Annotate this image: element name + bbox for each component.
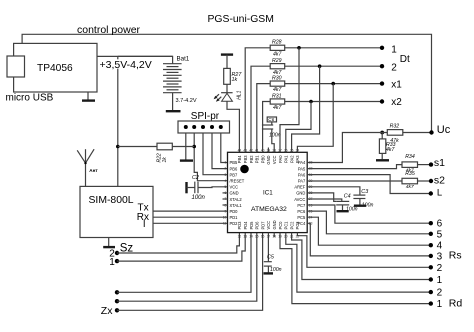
wire PC7 to terminal 6 (307, 205, 431, 223)
ground (C3) (354, 204, 366, 206)
node terminal 6 (429, 221, 433, 225)
svg-text:1: 1 (109, 257, 115, 268)
node Zx bottom (115, 308, 119, 312)
wire R30 left to PB1 pin41 (257, 84, 270, 153)
svg-text:C3: C3 (361, 189, 368, 195)
battery Bat1 (163, 55, 190, 92)
svg-text:XTAL1: XTAL1 (230, 203, 243, 208)
svg-text:PD1: PD1 (230, 215, 239, 220)
svg-text:s1: s1 (434, 157, 445, 169)
wire R33 stubs (381, 133, 383, 139)
wire PC6 to terminal 5 (307, 211, 431, 234)
svg-text:GND: GND (296, 191, 305, 196)
svg-text:HL1: HL1 (237, 90, 243, 99)
svg-text:3.7-4.2V: 3.7-4.2V (176, 98, 197, 104)
node terminal x2 (380, 99, 384, 103)
svg-text:TP4056: TP4056 (37, 63, 73, 74)
svg-text:PB2: PB2 (249, 155, 254, 163)
svg-text:PC7: PC7 (297, 203, 306, 208)
svg-text:4k7: 4k7 (386, 147, 395, 153)
wire SPI pin5 to PB5 (221, 133, 228, 163)
wire control power rail (22, 34, 431, 132)
wire R22 to RESET junction (172, 146, 194, 148)
svg-text:XTAL2: XTAL2 (230, 197, 243, 202)
wire Sz2 to PD3 (117, 233, 239, 253)
svg-text:10: 10 (223, 216, 227, 220)
IC U1 ATMEGA32 body (228, 152, 308, 232)
svg-text:Uc: Uc (437, 124, 451, 136)
svg-text:x1: x1 (391, 79, 402, 90)
svg-text:PC6: PC6 (297, 209, 306, 214)
svg-text:s2: s2 (434, 175, 445, 187)
svg-text:micro USB: micro USB (6, 93, 54, 104)
svg-text:2: 2 (225, 167, 227, 171)
ground (TP4056) (82, 92, 95, 101)
svg-text:PC3: PC3 (295, 221, 300, 230)
ground (SPI) (180, 159, 193, 161)
svg-text:PB6: PB6 (230, 166, 238, 171)
svg-text:PA2: PA2 (289, 155, 294, 163)
svg-text:PA6: PA6 (298, 172, 306, 177)
svg-text:C2: C2 (192, 175, 199, 181)
svg-text:VCC: VCC (272, 155, 277, 164)
IC1 pin numbers left 1-11 (223, 161, 227, 226)
svg-text:R32: R32 (390, 124, 400, 130)
svg-text:6: 6 (437, 219, 443, 230)
node Sz 2 (115, 251, 119, 255)
pin stub GND bottom 18 (273, 233, 275, 237)
svg-text:PB1: PB1 (255, 155, 260, 163)
module U3 SIM-800L box (80, 186, 153, 237)
svg-text:5: 5 (225, 185, 227, 189)
IC1 top pin labels (237, 155, 300, 165)
svg-text:2: 2 (437, 288, 443, 299)
pin stub GND top 39 (267, 148, 269, 153)
wire +3,5V branch down to SIM-800L (118, 55, 173, 57)
svg-text:PB4: PB4 (237, 155, 242, 163)
svg-text:4: 4 (437, 241, 443, 252)
svg-text:IC1: IC1 (263, 189, 273, 196)
svg-text:PD0: PD0 (230, 209, 239, 214)
IC1 right pin labels (294, 160, 306, 226)
wire PC1 to terminal 2 (Rd) (286, 233, 431, 293)
wire SIM Rx to PD1 (153, 216, 228, 218)
svg-text:+3,5V-4,2V: +3,5V-4,2V (100, 59, 152, 71)
svg-text:5: 5 (437, 229, 443, 240)
wire SPI pin3 to PB7 (203, 133, 228, 175)
svg-text:VCC: VCC (230, 185, 239, 190)
wire R31 right to terminal x2 (285, 101, 382, 103)
svg-text:control power: control power (77, 24, 141, 36)
resistor R33 (379, 139, 385, 154)
IC1 pin numbers bottom 12-22 (238, 235, 300, 239)
svg-text:3: 3 (437, 251, 443, 262)
svg-text:AREF: AREF (294, 185, 305, 190)
svg-text:4k7: 4k7 (273, 105, 282, 111)
svg-text:11: 11 (223, 222, 227, 226)
node terminal 1 (380, 46, 384, 50)
svg-text:1k: 1k (232, 77, 238, 83)
svg-text:Ант: Ант (89, 168, 98, 173)
wire +3,5V rail TP4056 to battery (97, 56, 173, 63)
pin stub XTAL2 (223, 198, 228, 200)
svg-text:4k7: 4k7 (273, 51, 282, 57)
wire SIM to PD2 (153, 222, 228, 224)
svg-text:2: 2 (391, 62, 397, 73)
wire Zx bottom to PD7 (117, 233, 263, 311)
node terminal 2 (380, 64, 384, 68)
ground (R33) (376, 159, 389, 161)
wire R28 right to terminal 1 (285, 47, 382, 49)
node terminal s1 (429, 162, 433, 166)
wire R29 right to terminal 2 (285, 65, 382, 67)
svg-text:PC2: PC2 (289, 221, 294, 230)
wire junction to PA4 (307, 133, 387, 163)
svg-text:PA7: PA7 (298, 179, 306, 184)
node junction R32/R33 (380, 131, 384, 135)
svg-text:VCC: VCC (266, 221, 271, 230)
svg-text:PC0: PC0 (278, 221, 283, 230)
wire junction to PA3 pin34 (297, 84, 333, 153)
svg-text:SIM-800L: SIM-800L (89, 195, 134, 206)
node terminal 3 (429, 254, 433, 258)
wire VCC pin17 to C5 (267, 233, 269, 262)
svg-text:x2: x2 (391, 97, 402, 108)
wire PC5 to terminal 4 (307, 217, 431, 245)
wire Sz1 to PD4 (117, 233, 245, 262)
svg-text:4: 4 (225, 179, 227, 183)
svg-text:1: 1 (391, 45, 397, 56)
node terminal Uc (429, 130, 433, 134)
node Sz 1 (115, 259, 119, 263)
svg-text:GND: GND (266, 155, 271, 164)
resistor R27 (224, 68, 231, 84)
svg-text:12: 12 (238, 235, 242, 239)
wire PA7 to R35 (307, 180, 402, 182)
svg-text:PA3: PA3 (295, 155, 300, 163)
node terminal 1 (Rs) (429, 277, 433, 281)
node terminal 1 (Rd) (429, 301, 433, 305)
pin stub XTAL1 (223, 204, 228, 206)
capacitor C6 (262, 117, 277, 152)
svg-text:C4: C4 (344, 194, 351, 200)
svg-text:Zx: Zx (101, 305, 113, 317)
node Zx top (115, 290, 119, 294)
wire GND pin to C4 (307, 193, 336, 202)
svg-text:PA1: PA1 (284, 155, 289, 163)
wire junction to PA1 pin36 (286, 102, 311, 153)
wire PC4 to terminal 3 (307, 223, 431, 256)
tick mark below Rx (143, 220, 145, 227)
svg-text:R35: R35 (405, 171, 415, 177)
IC1 bottom pin labels (237, 220, 300, 229)
node junction R22/RESET (192, 145, 196, 149)
svg-text:9: 9 (225, 209, 227, 213)
svg-text:14: 14 (249, 235, 253, 239)
wire SPI pin2 RESET net (194, 133, 227, 181)
svg-text:Rd: Rd (449, 297, 463, 309)
wire R35 to s2 (418, 180, 432, 182)
ground (C4) (337, 210, 349, 212)
resistor R22 (157, 143, 172, 150)
svg-text:Bat1: Bat1 (177, 55, 190, 62)
svg-text:PA5: PA5 (298, 166, 306, 171)
svg-text:3: 3 (225, 173, 227, 177)
svg-text:ATMEGA32: ATMEGA32 (251, 206, 287, 213)
svg-text:PC1: PC1 (284, 221, 289, 230)
wire AVCC to C4 (307, 199, 342, 201)
ground (SIM-800L) (103, 238, 115, 248)
node terminal 4 (429, 243, 433, 247)
node terminal s2 (429, 179, 433, 183)
antenna (77, 149, 94, 186)
node terminal x1 (380, 81, 384, 85)
node terminal 2 (Rd) (429, 290, 433, 294)
svg-text:44: 44 (238, 148, 242, 152)
svg-text:Rx: Rx (137, 212, 149, 223)
pin stub GND left (223, 192, 228, 194)
svg-text:16: 16 (261, 235, 265, 239)
svg-text:Rs: Rs (449, 250, 462, 262)
svg-text:PD4: PD4 (243, 221, 248, 230)
wire R32 right to Uc (403, 132, 432, 134)
connector micro USB (7, 56, 25, 77)
wire R34 to s1 (418, 164, 432, 166)
node junction R30/PA3 (331, 82, 335, 86)
ground (C5) (264, 272, 274, 274)
svg-text:1: 1 (225, 161, 227, 165)
svg-text:100n: 100n (269, 132, 281, 138)
svg-text:2: 2 (437, 263, 443, 274)
svg-text:PA0: PA0 (278, 155, 283, 163)
wire junction to R22 (118, 146, 157, 148)
svg-text:GND: GND (272, 220, 277, 229)
svg-text:100n: 100n (192, 195, 206, 201)
wire SIM Tx to PD0 (153, 210, 228, 212)
node Zx middle (115, 299, 119, 303)
capacitor C5 (264, 262, 272, 273)
wire PA5 to R34 (307, 165, 402, 169)
module U2 TP4056 charger box (14, 43, 97, 92)
LED HL1 (214, 93, 233, 102)
svg-text:PD3: PD3 (237, 221, 242, 230)
wire junction to PA2 pin35 (292, 66, 320, 152)
wire SPI pin4 to PB6 (212, 133, 228, 169)
node junction R31/PA1 (309, 100, 313, 104)
svg-text:PB7: PB7 (230, 172, 238, 177)
svg-text:4k7: 4k7 (273, 87, 282, 93)
wire R31 left to PB0 pin40 (263, 102, 271, 153)
power bar (+V tap for R27) (221, 55, 233, 69)
svg-text:1k: 1k (162, 157, 168, 163)
wire R30 right to terminal x1 (285, 83, 382, 85)
svg-text:R34: R34 (405, 154, 415, 160)
capacitor C2 (187, 182, 228, 194)
svg-text:PC5: PC5 (297, 215, 306, 220)
wire PC3 to terminal 2 (297, 233, 430, 268)
svg-text:/RESET: /RESET (230, 179, 245, 184)
wire junction to PA0 pin37 (280, 48, 299, 153)
svg-text:C5: C5 (267, 255, 275, 261)
wire R28 left to PB3 pin43 (245, 48, 270, 153)
capacitor C3 (353, 195, 365, 204)
svg-text:PD6: PD6 (255, 221, 260, 230)
svg-text:AVCC: AVCC (294, 197, 305, 202)
IC1 pin numbers top 44-34 (238, 148, 300, 152)
svg-text:PB0: PB0 (260, 155, 265, 163)
svg-text:PD5: PD5 (249, 221, 254, 230)
wire SPI pin1 to ground (185, 133, 187, 160)
wire PC0 to terminal 1 (Rd) (280, 233, 431, 304)
svg-text:SPI-pr: SPI-pr (191, 111, 220, 122)
capacitor C4 (336, 201, 349, 210)
wire PA6 to L (307, 175, 431, 194)
node junction +3,5V / R22 (116, 145, 120, 149)
IC1 pin numbers right 33-23 (309, 161, 313, 226)
svg-text:GND: GND (230, 191, 239, 196)
svg-text:15: 15 (255, 235, 259, 239)
svg-text:1: 1 (437, 299, 443, 310)
wire LED to PB4 pin44 (227, 101, 239, 152)
node terminal 2 (Rs) (429, 265, 433, 269)
ground (battery) (166, 93, 181, 112)
wire PC2 to terminal 1 (292, 233, 431, 280)
wire Zx middle to PD6 (117, 233, 257, 302)
wire R29 left to PB2 pin42 (251, 66, 270, 152)
svg-text:4k7: 4k7 (406, 184, 414, 190)
IC1 left pin labels (230, 160, 245, 226)
node terminal L (429, 191, 433, 195)
wire AREF to C3 (307, 187, 360, 195)
svg-text:PB3: PB3 (243, 155, 248, 163)
svg-text:PD7: PD7 (260, 221, 265, 230)
svg-text:1: 1 (437, 275, 443, 286)
svg-text:13: 13 (243, 235, 247, 239)
node junction R29/PA2 (318, 64, 322, 68)
svg-text:L: L (437, 188, 442, 199)
svg-text:PGS-uni-GSM: PGS-uni-GSM (208, 14, 274, 25)
node terminal 5 (429, 232, 433, 236)
svg-text:Dt: Dt (400, 54, 410, 65)
wire Zx top to PD5 (117, 233, 251, 293)
wire R27 to LED (226, 84, 228, 93)
node junction R28/PA0 (297, 46, 301, 50)
svg-text:C6: C6 (268, 117, 274, 122)
